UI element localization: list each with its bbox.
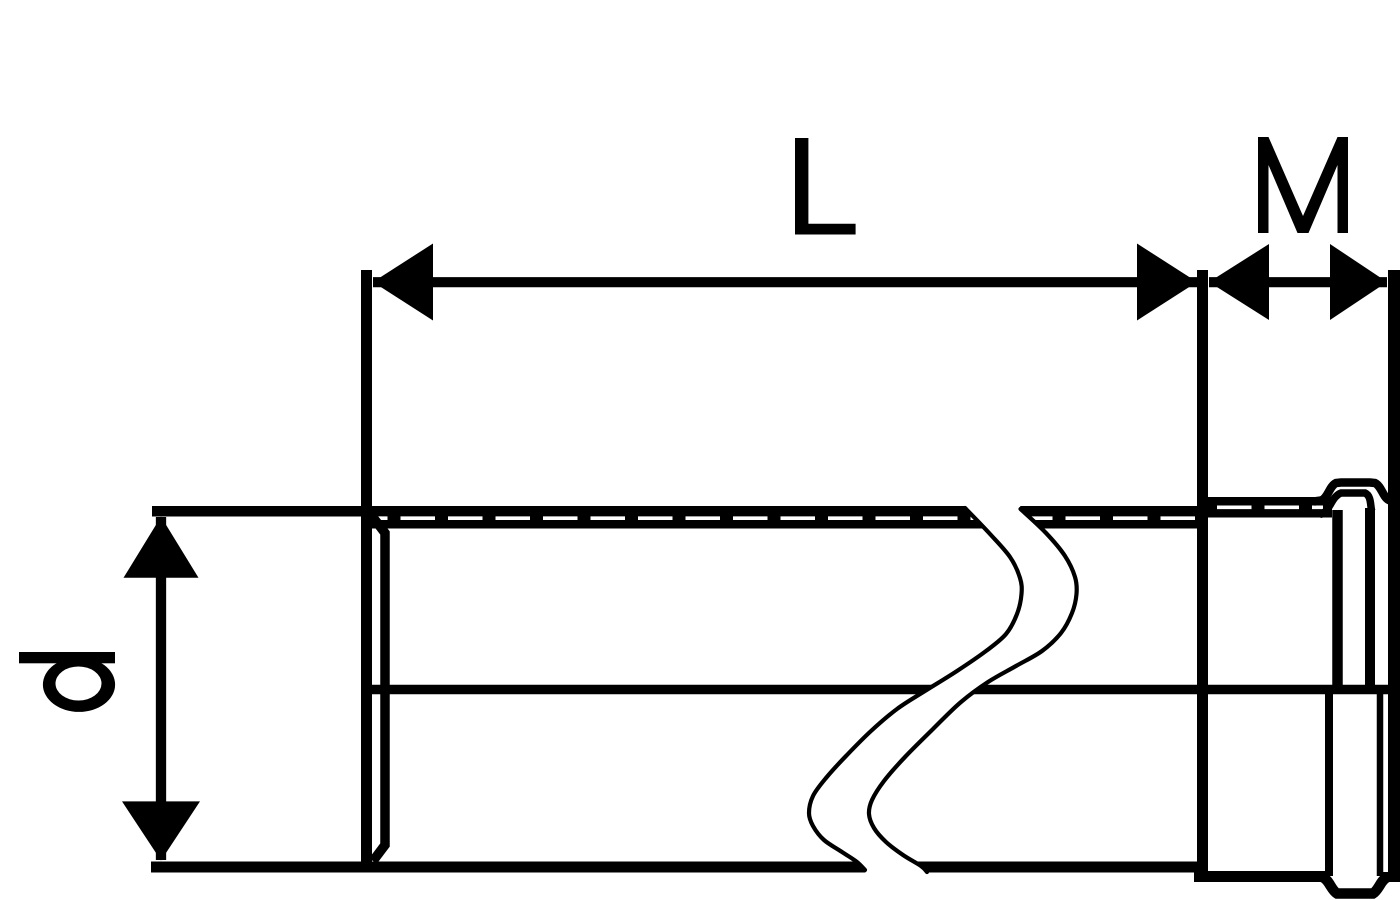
label M <box>1258 137 1348 233</box>
socket mouth face line + M right extension line <box>1388 270 1400 878</box>
bead left edge vertical (outside view) <box>1325 694 1333 876</box>
arrowhead L right <box>1137 244 1197 321</box>
socket face line + shared L/M extension line <box>1197 270 1208 874</box>
bead outer profile top <box>1314 483 1400 502</box>
arrowhead d bottom <box>122 801 200 860</box>
socket bottom edge <box>1194 871 1330 882</box>
label d (rotated) bowl inner <box>56 667 102 701</box>
dimension line d (vertical) <box>156 517 166 860</box>
socket bottom edge right of bead <box>1383 872 1400 882</box>
arrowhead M left <box>1209 244 1269 320</box>
pipe axis line (half-section boundary) <box>370 685 1392 694</box>
dimension extension line top (d) merged with pipe top edge <box>152 506 372 517</box>
break line right (S-curve) <box>869 509 1077 872</box>
groove left edge vertical (section) <box>1332 510 1343 689</box>
pipe wall band top (sectioned wall, pipe barrel) <box>366 506 1203 529</box>
arrowhead M right <box>1330 244 1387 320</box>
pipe left end chamfer line <box>372 516 385 861</box>
groove right edge vertical (section) <box>1365 508 1375 689</box>
bead inner profile top (groove wall) <box>1320 493 1372 515</box>
socket wall hatch white stripe <box>1209 505 1323 509</box>
break line left (S-curve) <box>809 508 1022 870</box>
dimension line L <box>373 277 1197 287</box>
socket wall band top <box>1197 497 1332 518</box>
label d (rotated) bowl outer <box>43 657 115 712</box>
pipe wall hatch white stripe <box>378 516 1199 520</box>
pipe bottom edge merged with d bottom extension line <box>151 862 1197 873</box>
bead outer profile bottom <box>1322 877 1388 894</box>
label d (rotated) stem <box>19 652 115 663</box>
break gap white fill <box>809 504 1077 875</box>
pipe left end edge + L left extension line <box>361 270 372 870</box>
arrowhead d top <box>124 517 199 578</box>
bead right edge vertical (outside view) <box>1377 694 1384 876</box>
arrowhead L left <box>373 244 433 321</box>
label L <box>795 138 856 235</box>
dimension line M <box>1209 277 1387 287</box>
